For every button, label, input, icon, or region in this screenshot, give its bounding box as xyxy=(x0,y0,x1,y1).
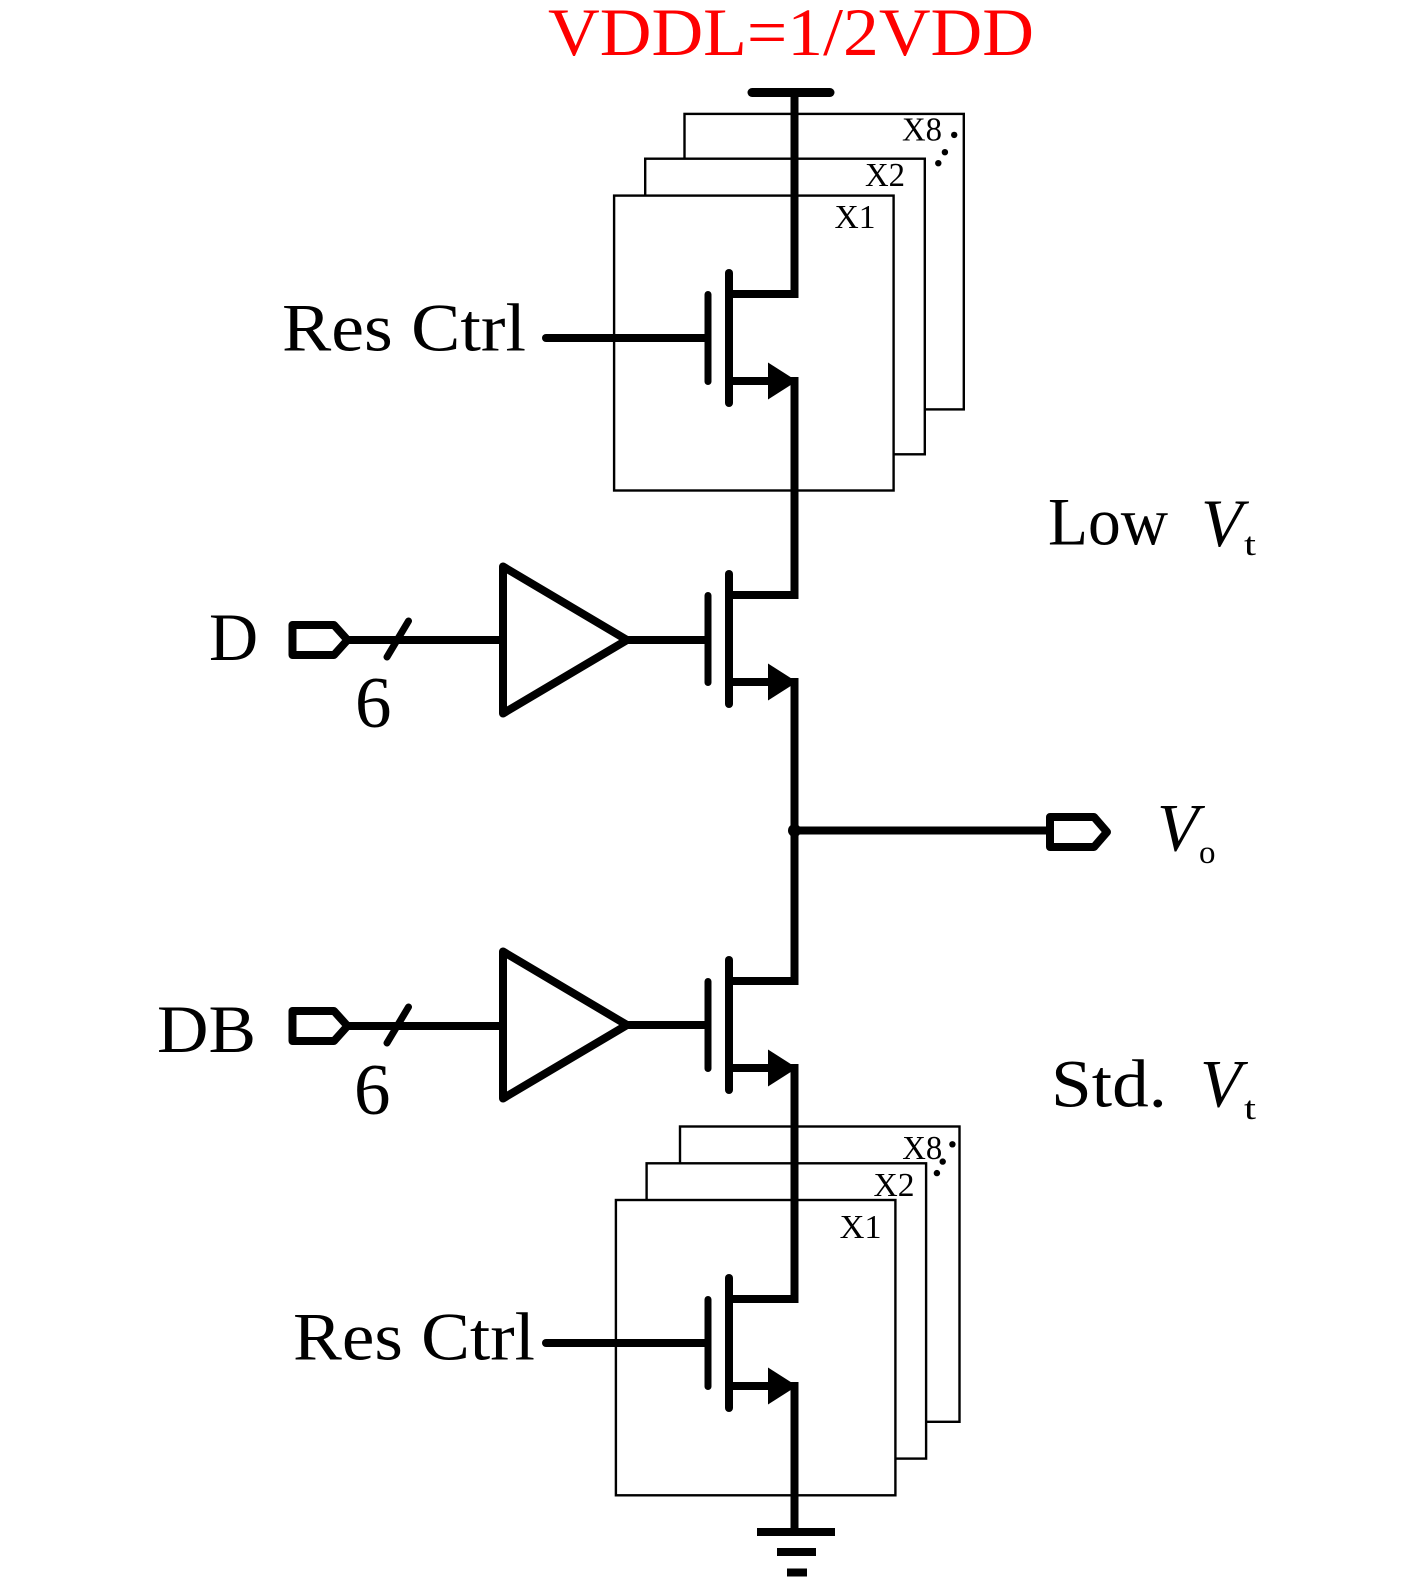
svg-text:D: D xyxy=(209,599,258,675)
svg-text:VDDL=1/2VDD: VDDL=1/2VDD xyxy=(548,0,1034,70)
wire: buffer U1 output to M2 gate xyxy=(624,636,706,644)
label Std. Vt xyxy=(1051,1046,1256,1127)
transistor M4 (bottom Res Ctrl, Std Vt bank) xyxy=(708,1278,797,1408)
svg-text:t: t xyxy=(1244,527,1256,563)
svg-text:X2: X2 xyxy=(874,1167,915,1204)
wire: M2 source down to M3 drain (output rail) xyxy=(729,682,795,981)
svg-text:X8: X8 xyxy=(902,1130,942,1167)
wire: M1 source down to M2 drain xyxy=(729,381,795,595)
port flag DB xyxy=(293,1011,348,1041)
svg-text:Res Ctrl: Res Ctrl xyxy=(293,1299,535,1375)
multiplier box X8 (top group) xyxy=(685,112,964,410)
svg-text:Std.: Std. xyxy=(1051,1046,1167,1122)
transistor M1 (top Res Ctrl, Low Vt bank) xyxy=(708,273,797,403)
svg-text:o: o xyxy=(1199,835,1216,871)
multiplier box X2 (bottom group) xyxy=(647,1163,927,1458)
svg-text:Low: Low xyxy=(1048,484,1168,560)
wire: Res Ctrl to M1 gate xyxy=(546,334,706,342)
wire: M3 source down to M4 drain xyxy=(729,1068,795,1299)
multiplier box X1 (bottom group) xyxy=(616,1200,896,1495)
bus slash (DB, width 6) xyxy=(387,1007,409,1043)
ground xyxy=(757,1532,835,1573)
port flag Vo xyxy=(1050,817,1107,847)
svg-text:t: t xyxy=(1244,1091,1256,1127)
svg-text:X1: X1 xyxy=(840,1209,882,1246)
wire: M4 source down to ground xyxy=(729,1386,795,1532)
transistor M2 (D input NMOS) xyxy=(708,574,797,704)
label Low Vt xyxy=(1048,484,1256,564)
transistor M3 (DB input NMOS) xyxy=(708,960,797,1090)
svg-text:6: 6 xyxy=(355,662,392,743)
multiplier box X8 (bottom group) xyxy=(680,1127,960,1422)
wire: DB flag to buffer xyxy=(347,1022,503,1030)
svg-text:X8: X8 xyxy=(902,112,942,149)
ellipsis dots (bottom group) xyxy=(934,1141,956,1176)
wire: D flag to buffer xyxy=(347,636,503,644)
svg-text:X2: X2 xyxy=(865,157,905,194)
wire: Res Ctrl to M4 gate xyxy=(546,1339,706,1347)
port flag D xyxy=(293,625,348,655)
svg-text:X1: X1 xyxy=(835,199,876,236)
svg-text:6: 6 xyxy=(354,1049,391,1130)
svg-text:Res Ctrl: Res Ctrl xyxy=(282,290,526,366)
buffer U1 (D driver) xyxy=(503,567,627,714)
wire: output to Vo flag xyxy=(795,827,1049,835)
svg-text:DB: DB xyxy=(157,991,256,1067)
multiplier box X2 (top group) xyxy=(645,157,925,454)
wire: buffer U2 output to M3 gate xyxy=(624,1021,706,1029)
ellipsis dots (top group) xyxy=(935,132,957,167)
VDD supply bar xyxy=(752,88,830,97)
label Vo xyxy=(1157,790,1216,872)
multiplier box X1 (top group) xyxy=(614,196,894,491)
buffer U2 (DB driver) xyxy=(503,952,627,1099)
bus slash (D, width 6) xyxy=(387,621,409,657)
wire: M1 drain to VDD rail xyxy=(729,93,795,295)
node Vo junction dot xyxy=(788,824,801,837)
